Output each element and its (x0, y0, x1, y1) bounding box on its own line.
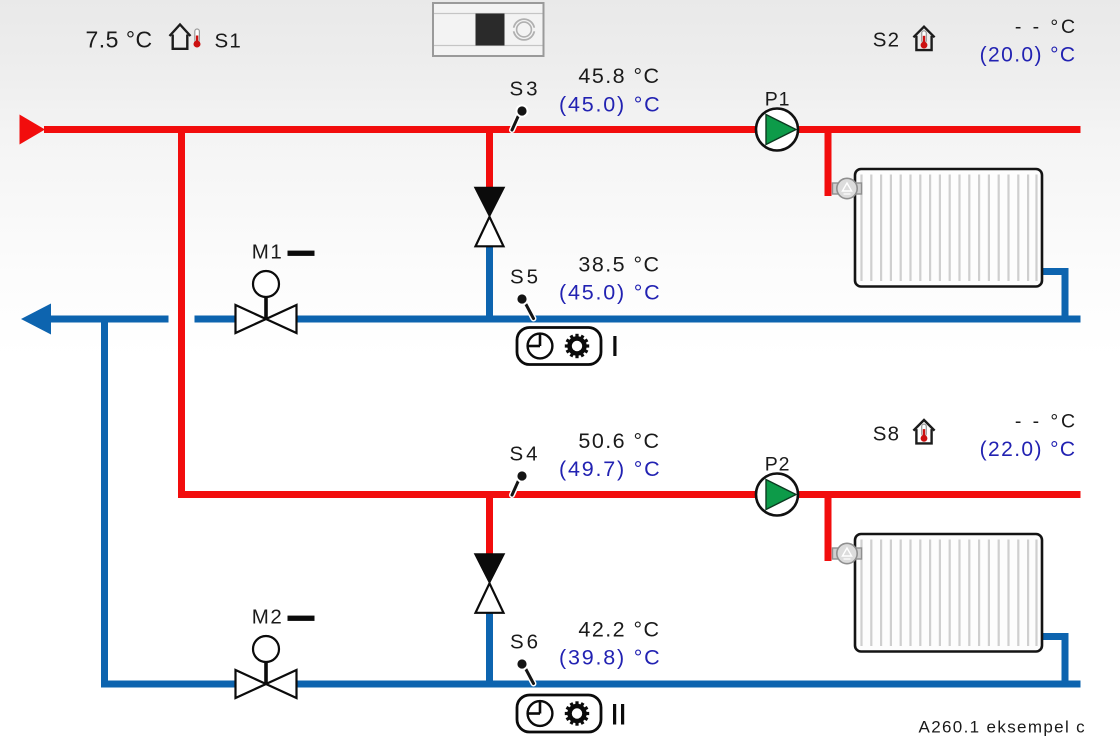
svg-text:M2: M2 (252, 606, 283, 629)
svg-text:7.5 °C: 7.5 °C (86, 26, 153, 52)
svg-text:(22.0) °C: (22.0) °C (980, 438, 1077, 461)
svg-text:S2: S2 (873, 29, 900, 52)
svg-text:S6: S6 (510, 630, 541, 653)
svg-text:S3: S3 (510, 77, 541, 100)
svg-text:50.6 °C: 50.6 °C (578, 429, 660, 453)
svg-text:45.8 °C: 45.8 °C (578, 64, 660, 88)
svg-text:38.5 °C: 38.5 °C (578, 253, 660, 277)
svg-text:P2: P2 (765, 454, 790, 476)
svg-text:A260.1 eksempel c: A260.1 eksempel c (919, 718, 1087, 737)
svg-text:S4: S4 (510, 442, 541, 465)
svg-text:S1: S1 (215, 29, 242, 52)
svg-text:(20.0) °C: (20.0) °C (980, 43, 1077, 66)
svg-text:- - °C: - - °C (1015, 16, 1078, 38)
svg-text:(45.0) °C: (45.0) °C (559, 93, 661, 117)
svg-text:(49.7) °C: (49.7) °C (559, 457, 661, 481)
svg-text:M1: M1 (252, 241, 283, 264)
svg-text:42.2 °C: 42.2 °C (578, 618, 660, 642)
svg-text:S5: S5 (510, 265, 541, 288)
svg-text:(45.0) °C: (45.0) °C (559, 281, 661, 305)
svg-text:(39.8) °C: (39.8) °C (559, 646, 661, 670)
svg-text:P1: P1 (765, 89, 790, 111)
svg-text:S8: S8 (873, 423, 900, 446)
svg-text:- - °C: - - °C (1015, 411, 1078, 433)
